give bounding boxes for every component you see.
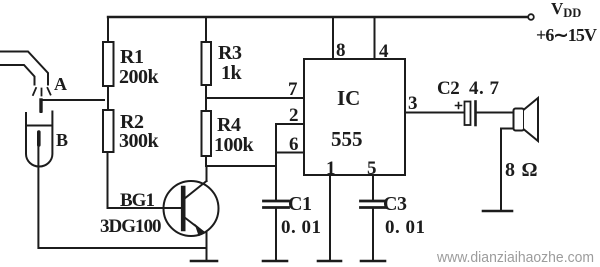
- svg-text:A: A: [54, 74, 67, 94]
- ground (C1): [263, 260, 287, 263]
- svg-text:0. 01: 0. 01: [281, 217, 322, 238]
- svg-text:1: 1: [326, 158, 336, 179]
- svg-text:R3: R3: [218, 42, 242, 64]
- svg-text:3: 3: [408, 93, 418, 114]
- svg-text:BG1: BG1: [120, 190, 154, 211]
- wire: pin 4 to rail: [374, 17, 376, 59]
- resistor R4: [202, 111, 212, 166]
- svg-text:C3: C3: [383, 193, 407, 215]
- capacitor C1: [264, 201, 289, 261]
- resistor R2: [103, 110, 114, 152]
- wire: collector up to R4 junction: [206, 166, 208, 181]
- capacitor C3: [361, 201, 386, 261]
- wire: sensor top electrode to R1/R2 junction: [41, 100, 104, 112]
- wire: B bottom to ground rail to emitter: [38, 146, 206, 248]
- svg-text:Ω: Ω: [522, 159, 538, 181]
- svg-text:R4: R4: [217, 114, 241, 136]
- svg-text:8: 8: [336, 40, 346, 61]
- capacitor C2 electrolytic: [456, 102, 476, 126]
- svg-text:555: 555: [331, 127, 363, 151]
- resistor R1: [103, 17, 114, 110]
- wire: pin 2: [276, 123, 304, 125]
- wire: emitter down to ground: [206, 232, 208, 261]
- svg-text:C2: C2: [437, 78, 459, 99]
- ground (emitter): [191, 260, 217, 263]
- wire: pin 6: [276, 152, 304, 154]
- svg-text:B: B: [56, 130, 68, 150]
- svg-text:4. 7: 4. 7: [469, 78, 500, 99]
- wire: C2 to speaker: [476, 112, 514, 114]
- ground (pin 1): [318, 260, 341, 263]
- svg-text:5: 5: [367, 158, 377, 179]
- svg-text:7: 7: [288, 79, 298, 100]
- wire: collector/R4 junction line: [206, 165, 276, 167]
- light pipe nozzle (sensor A): [0, 52, 48, 85]
- ground (speaker): [483, 210, 512, 213]
- wire: pin 8 to rail: [332, 17, 334, 59]
- svg-text:3DG100: 3DG100: [100, 216, 161, 237]
- svg-text:VDD: VDD: [551, 0, 581, 20]
- wire: speaker to ground: [501, 129, 514, 212]
- svg-text:200k: 200k: [119, 66, 160, 88]
- svg-text:6: 6: [289, 134, 299, 155]
- electrode inside B: [37, 132, 41, 145]
- wire: R2 bottom to transistor base: [108, 152, 182, 208]
- svg-text:+6∼15V: +6∼15V: [536, 25, 597, 45]
- IC 555 box: [304, 59, 405, 175]
- wire: pin 5 to C3: [372, 175, 374, 200]
- wire: pins 2/6 tie down to C1: [275, 124, 277, 200]
- terminal: VDD open circle: [528, 14, 534, 20]
- phototube B envelope: [26, 112, 52, 167]
- speaker: [514, 98, 539, 141]
- svg-text:2: 2: [289, 105, 299, 126]
- svg-text:4: 4: [379, 41, 389, 62]
- resistor R3: [202, 17, 212, 111]
- svg-text:1k: 1k: [221, 62, 243, 84]
- svg-text:300k: 300k: [119, 130, 160, 152]
- svg-text:C1: C1: [288, 193, 311, 215]
- svg-text:8: 8: [505, 159, 515, 181]
- transistor BG1: [164, 181, 219, 236]
- svg-text:IC: IC: [337, 86, 360, 110]
- svg-text:www.dianziaihaozhe.com: www.dianziaihaozhe.com: [436, 249, 594, 266]
- svg-text:R1: R1: [120, 46, 143, 68]
- light rays from A: [33, 88, 51, 96]
- svg-text:0. 01: 0. 01: [385, 217, 426, 238]
- svg-text:100k: 100k: [214, 134, 255, 156]
- ground (C3): [361, 260, 385, 263]
- wire: pin 1 to ground: [329, 175, 331, 261]
- wire: pin 7 to R3/R4 junction: [206, 97, 304, 99]
- wire: pin 3 output: [405, 112, 464, 114]
- wire: top VDD supply rail: [108, 16, 528, 18]
